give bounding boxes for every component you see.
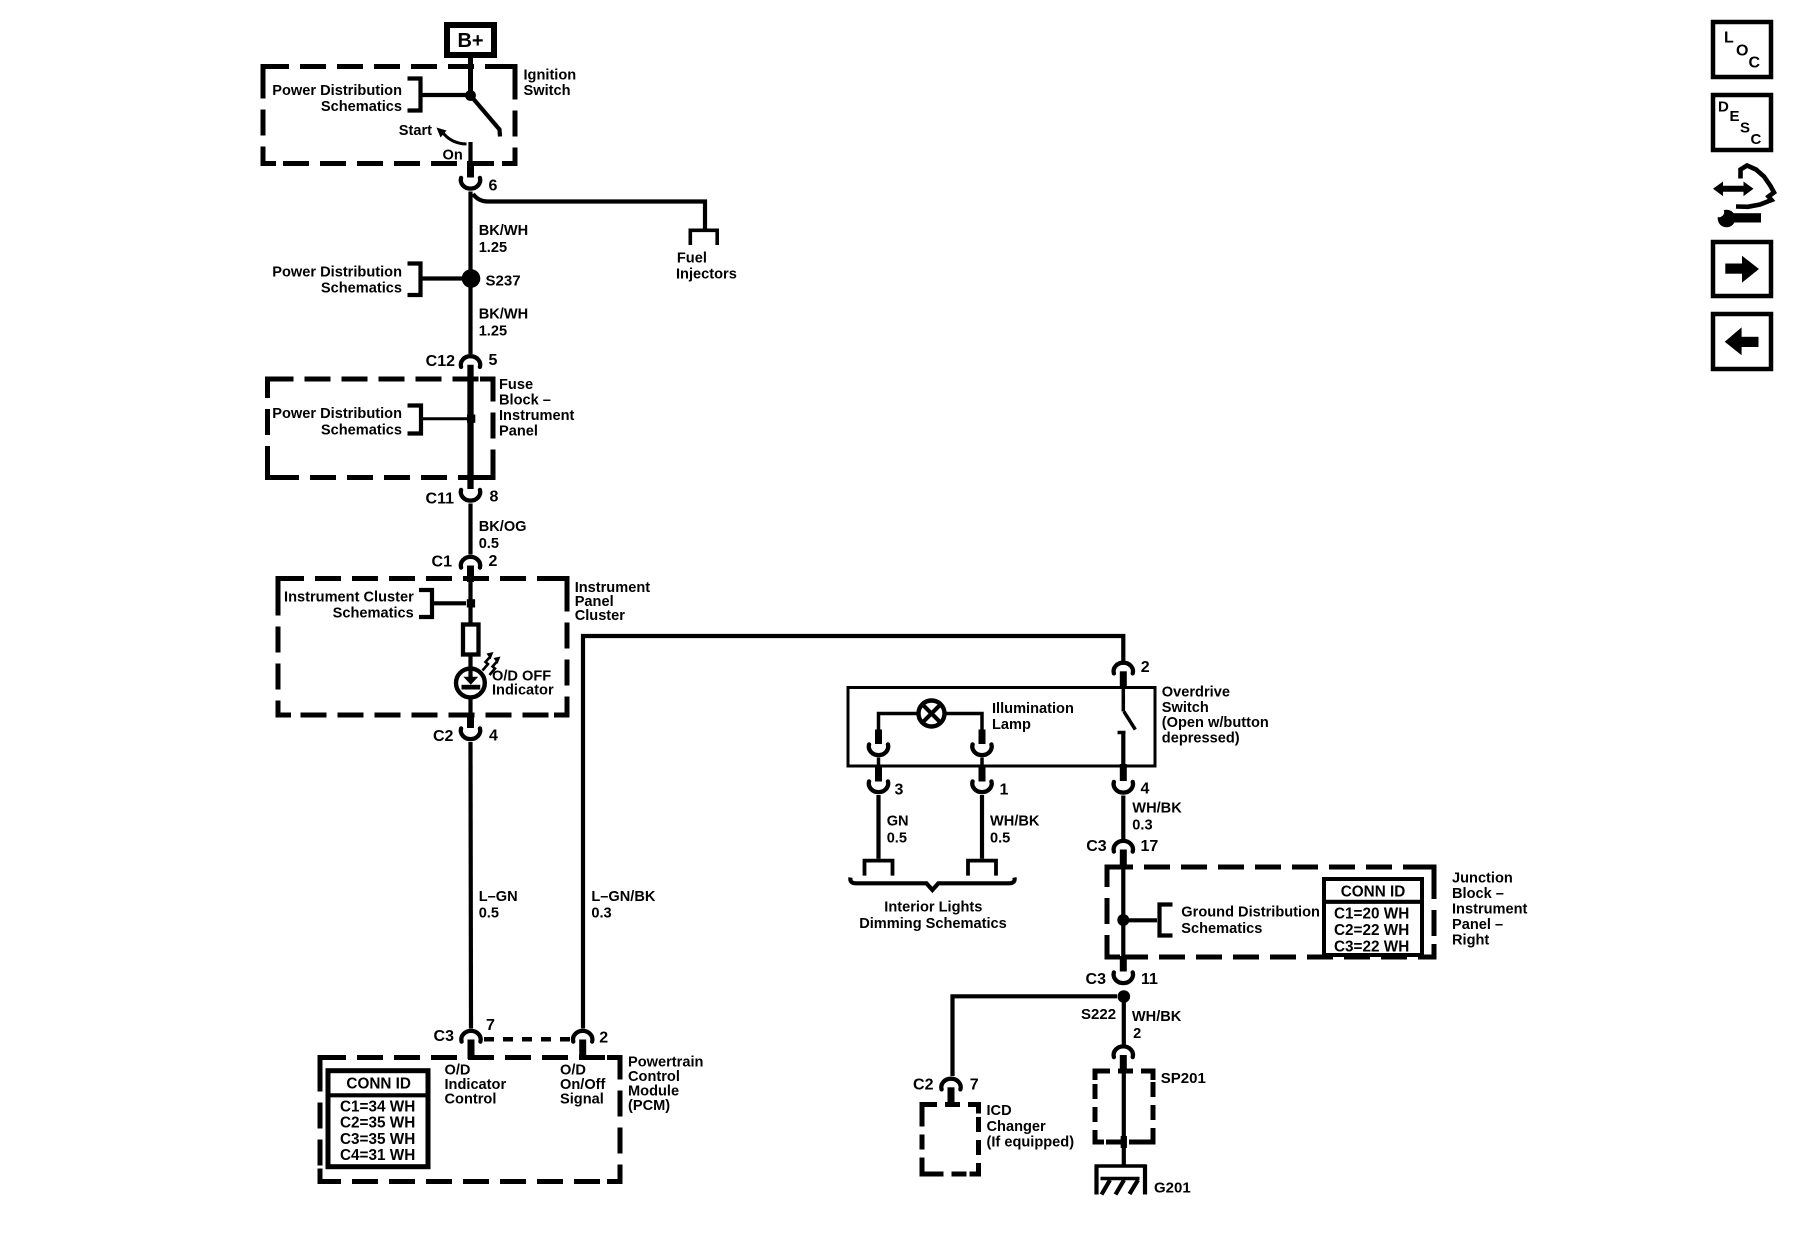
O/D OFF indicator LED <box>456 669 485 698</box>
start-to-on arrow <box>437 128 467 145</box>
svg-text:Ground Distribution: Ground Distribution <box>1181 905 1320 921</box>
lamp right leg <box>945 714 982 745</box>
svg-text:Fuse: Fuse <box>499 377 533 393</box>
svg-text:Instrument: Instrument <box>1452 902 1528 918</box>
svg-text:L: L <box>1724 30 1734 47</box>
svg-text:Dimming Schematics: Dimming Schematics <box>859 916 1007 932</box>
ignition switch pivot <box>465 90 476 101</box>
battery feed B+ <box>447 25 494 55</box>
male pin into switch <box>1120 671 1127 688</box>
lamp right male pin <box>979 766 986 782</box>
connector C12 pin 5 <box>426 352 498 370</box>
svg-text:Interior Lights: Interior Lights <box>884 900 982 916</box>
wire pin3 down <box>876 795 880 859</box>
ignition switch box <box>263 67 515 164</box>
svg-text:0.5: 0.5 <box>479 536 499 552</box>
svg-text:Panel –: Panel – <box>1452 917 1503 933</box>
svg-text:(PCM): (PCM) <box>628 1098 670 1114</box>
svg-text:WH/BK: WH/BK <box>1132 1009 1182 1025</box>
connector C2 pin 4 <box>433 728 498 746</box>
male pin out of switch <box>1120 764 1127 781</box>
SP201 internal wire <box>1122 1073 1126 1136</box>
svg-text:2: 2 <box>1141 659 1150 676</box>
svg-text:Ignition: Ignition <box>524 68 577 84</box>
svg-text:SP201: SP201 <box>1161 1070 1206 1087</box>
svg-text:C3=22 WH: C3=22 WH <box>1334 938 1409 955</box>
svg-text:C1: C1 <box>432 554 453 571</box>
svg-text:C: C <box>1749 55 1761 72</box>
O/D indicator control label <box>445 1062 507 1107</box>
O/D on/off signal wire <box>583 636 1123 1029</box>
lamp left leg <box>879 714 919 745</box>
svg-text:C3: C3 <box>1086 838 1107 855</box>
svg-text:Schematics: Schematics <box>321 422 402 438</box>
svg-text:0.5: 0.5 <box>479 905 499 921</box>
wire C11 to C1 <box>468 504 472 555</box>
power distribution schematics label 2 <box>272 264 466 297</box>
PCM CONN ID table <box>328 1071 428 1167</box>
svg-text:ICD: ICD <box>987 1103 1012 1119</box>
svg-text:L–GN/BK: L–GN/BK <box>591 889 656 905</box>
resistor <box>463 625 479 655</box>
overdrive switch contacts and blade <box>1118 689 1136 765</box>
wire to fuel injectors branch <box>473 194 705 229</box>
lamp right wire to box edge <box>980 758 984 767</box>
svg-text:S222: S222 <box>1081 1006 1116 1023</box>
svg-text:C4=31 WH: C4=31 WH <box>340 1147 415 1164</box>
connector C3 pin 11 <box>1086 971 1158 988</box>
wire pin1 down <box>980 795 984 859</box>
wire 4 to C3 17 <box>1121 796 1125 840</box>
wire label L-GN 0.5 <box>479 889 518 922</box>
connector PCM C3 pin 7 <box>434 1017 495 1045</box>
svg-text:On: On <box>443 148 463 164</box>
svg-text:CONN ID: CONN ID <box>346 1076 411 1093</box>
lamp left male pin <box>875 766 882 782</box>
svg-text:E: E <box>1730 108 1740 125</box>
wire label GN 0.5 <box>887 814 909 847</box>
svg-text:2: 2 <box>599 1030 608 1047</box>
svg-text:Switch: Switch <box>1162 700 1209 716</box>
svg-text:7: 7 <box>486 1017 495 1034</box>
svg-text:Schematics: Schematics <box>333 605 414 621</box>
wire S222 to SP201 <box>1122 1002 1126 1045</box>
PCM male pins <box>471 1040 583 1060</box>
male pin out of junction block <box>1120 956 1127 972</box>
svg-text:3: 3 <box>895 782 904 799</box>
svg-text:(If equipped): (If equipped) <box>987 1134 1075 1150</box>
interior lights terminator left <box>865 861 893 876</box>
svg-text:2: 2 <box>489 553 498 570</box>
svg-text:0.3: 0.3 <box>1132 818 1152 834</box>
svg-text:C2=35 WH: C2=35 WH <box>340 1115 415 1132</box>
SP201 dashed box <box>1095 1071 1153 1142</box>
svg-text:Switch: Switch <box>524 83 571 99</box>
svg-text:G201: G201 <box>1154 1180 1191 1197</box>
ground G201 <box>1095 1165 1147 1195</box>
wire label WH/BK 0.3 <box>1132 801 1182 834</box>
svg-text:17: 17 <box>1141 838 1159 855</box>
illumination lamp <box>919 701 945 727</box>
powertrain control module label <box>628 1055 704 1115</box>
svg-text:1: 1 <box>1000 782 1009 799</box>
svg-text:7: 7 <box>970 1077 979 1094</box>
svg-text:Control: Control <box>445 1091 497 1107</box>
junction block internal wire <box>1121 869 1125 956</box>
svg-text:Right: Right <box>1452 933 1489 949</box>
wire C2 to PCM C3 <box>468 742 473 1029</box>
lamp right socket connector <box>972 744 991 755</box>
svg-text:Start: Start <box>399 123 432 139</box>
svg-text:11: 11 <box>1141 971 1158 988</box>
connector PCM pin 2 <box>573 1030 608 1047</box>
svg-text:Signal: Signal <box>560 1091 604 1107</box>
illumination lamp label <box>992 701 1074 733</box>
svg-text:Illumination: Illumination <box>992 701 1074 717</box>
connector C3 pin 17 <box>1086 838 1158 855</box>
svg-text:Power Distribution: Power Distribution <box>272 83 402 99</box>
svg-text:depressed): depressed) <box>1162 730 1240 746</box>
svg-text:C3: C3 <box>434 1028 455 1045</box>
svg-text:O: O <box>1736 43 1748 60</box>
interior lights brace <box>850 878 1014 891</box>
svg-text:Panel: Panel <box>499 424 538 440</box>
lamp left wire to box edge <box>877 758 881 767</box>
connector C11 pin 8 <box>426 489 499 508</box>
svg-text:Instrument: Instrument <box>499 408 575 424</box>
svg-text:Indicator: Indicator <box>492 683 554 699</box>
svg-text:Lamp: Lamp <box>992 717 1031 733</box>
svg-text:Junction: Junction <box>1452 871 1513 887</box>
power distribution schematics label 1 <box>272 79 466 115</box>
O/D on/off signal label <box>560 1062 606 1107</box>
male pin into SP201 <box>1120 1055 1127 1073</box>
connector 2 (overdrive switch) <box>1114 659 1150 676</box>
wire S222 branch to ICD changer <box>953 996 1118 1076</box>
svg-text:Schematics: Schematics <box>321 281 402 297</box>
svg-text:6: 6 <box>489 178 498 195</box>
wire B+ to ignition switch <box>468 58 473 92</box>
ICD changer label <box>987 1103 1075 1151</box>
svg-text:C1=20 WH: C1=20 WH <box>1334 906 1409 923</box>
fuel injectors symbol <box>690 230 717 245</box>
male pin into ICD changer <box>948 1087 955 1105</box>
junction block label <box>1452 871 1528 949</box>
svg-text:BK/WH: BK/WH <box>479 223 528 239</box>
svg-text:Schematics: Schematics <box>321 99 402 115</box>
ignition switch blade <box>471 96 501 137</box>
power distribution schematics label 3 <box>272 406 467 439</box>
svg-text:5: 5 <box>489 352 498 369</box>
forward arrow nav icon <box>1713 242 1771 296</box>
splice S222 <box>1118 990 1131 1003</box>
svg-text:C2: C2 <box>433 728 454 745</box>
svg-text:C12: C12 <box>426 353 455 370</box>
interior lights terminator right <box>968 861 996 876</box>
schematic reference nav icon <box>1713 166 1774 228</box>
instrument cluster schematics label <box>284 590 466 622</box>
svg-text:Cluster: Cluster <box>575 608 626 624</box>
svg-text:Block –: Block – <box>1452 886 1504 902</box>
DESC nav icon <box>1713 95 1771 150</box>
male pin into cluster <box>467 566 474 583</box>
svg-text:B+: B+ <box>457 30 483 52</box>
svg-text:4: 4 <box>489 728 498 745</box>
SP201 exit stub <box>1121 1136 1127 1148</box>
svg-text:1.25: 1.25 <box>479 324 507 340</box>
svg-text:Injectors: Injectors <box>676 266 737 282</box>
wire label L-GN/BK 0.3 <box>591 889 656 921</box>
wire resistor to LED <box>468 655 472 678</box>
connector C2 pin 7 (ICD) <box>913 1077 979 1094</box>
male pin into junction block <box>1120 850 1127 870</box>
junction block CONN ID table <box>1324 879 1422 955</box>
svg-text:Instrument Cluster: Instrument Cluster <box>284 590 414 606</box>
splice S237 <box>462 269 481 288</box>
wire label BK/WH 1.25 (lower) <box>479 307 528 340</box>
svg-text:8: 8 <box>490 489 499 506</box>
svg-text:D: D <box>1718 99 1729 116</box>
lamp left socket connector <box>869 744 888 755</box>
svg-text:S: S <box>1740 120 1750 137</box>
PCM connector dashed tie <box>484 1037 570 1042</box>
svg-text:WH/BK: WH/BK <box>1132 801 1182 817</box>
svg-text:2: 2 <box>1133 1026 1141 1042</box>
svg-text:0.3: 0.3 <box>591 905 611 921</box>
connector 6 <box>461 178 480 189</box>
svg-text:1.25: 1.25 <box>479 240 507 256</box>
svg-text:BK/OG: BK/OG <box>479 519 527 535</box>
wire S237 to C12 <box>468 287 472 354</box>
svg-text:CONN ID: CONN ID <box>1341 884 1406 901</box>
svg-text:L–GN: L–GN <box>479 889 518 905</box>
fuel injectors label <box>676 251 737 283</box>
svg-text:0.5: 0.5 <box>887 831 907 847</box>
ground distribution schematics label <box>1117 905 1320 938</box>
wire label WH/BK 2 <box>1132 1009 1182 1042</box>
svg-text:C2: C2 <box>913 1077 934 1094</box>
wire label BK/OG 0.5 <box>479 519 527 552</box>
ICD changer dashed box <box>922 1105 979 1175</box>
powertrain control module box <box>320 1058 620 1182</box>
svg-text:C: C <box>1751 131 1762 148</box>
svg-text:BK/WH: BK/WH <box>479 307 528 323</box>
svg-text:Block –: Block – <box>499 393 551 409</box>
interior lights dimming schematics label <box>859 900 1007 933</box>
back arrow nav icon <box>1713 314 1771 369</box>
wire switch to connector 6 <box>468 142 472 178</box>
O/D OFF indicator label <box>492 669 554 699</box>
connector C1 pin 2 <box>432 553 498 571</box>
connector 4 <box>1114 781 1150 798</box>
svg-text:4: 4 <box>1141 781 1150 798</box>
svg-text:C11: C11 <box>426 491 455 508</box>
svg-text:Power Distribution: Power Distribution <box>272 265 402 281</box>
svg-text:S237: S237 <box>486 272 521 289</box>
wire label WH/BK 0.5 <box>990 814 1040 847</box>
svg-text:Schematics: Schematics <box>1181 921 1262 937</box>
wire label BK/WH 1.25 (upper) <box>479 223 528 256</box>
svg-text:C1=34 WH: C1=34 WH <box>340 1098 415 1115</box>
svg-text:Changer: Changer <box>987 1119 1047 1135</box>
ignition switch label <box>524 68 577 100</box>
wire connector 6 to S237 <box>468 192 472 271</box>
fuse block label <box>499 377 575 440</box>
svg-text:C3=35 WH: C3=35 WH <box>340 1131 415 1148</box>
fuse block wire (male pin through block) <box>467 365 473 489</box>
svg-text:C2=22 WH: C2=22 WH <box>1334 922 1409 939</box>
splice pack SP201 connector <box>1114 1046 1133 1057</box>
svg-text:(Open w/button: (Open w/button <box>1162 715 1269 731</box>
LED light arrows <box>483 652 501 675</box>
overdrive switch box <box>848 688 1155 767</box>
instrument panel cluster label <box>575 580 651 624</box>
svg-text:C3: C3 <box>1086 971 1107 988</box>
fuse block dashed box <box>268 379 494 478</box>
svg-text:WH/BK: WH/BK <box>990 814 1040 830</box>
svg-text:0.5: 0.5 <box>990 831 1010 847</box>
wire LED to box edge <box>468 697 472 715</box>
svg-text:Power Distribution: Power Distribution <box>272 406 402 422</box>
cluster junction <box>467 599 475 607</box>
harness connector pin 3 <box>869 781 904 798</box>
svg-text:Overdrive: Overdrive <box>1162 685 1230 701</box>
male pin out of cluster <box>467 713 474 728</box>
svg-text:Fuel: Fuel <box>677 251 707 267</box>
cluster wire upper <box>468 578 472 625</box>
svg-text:GN: GN <box>887 814 909 830</box>
LOC nav icon <box>1713 22 1771 77</box>
fuse block junction <box>467 415 475 423</box>
junction block dashed box <box>1107 867 1434 957</box>
harness connector pin 1 <box>972 781 1008 798</box>
instrument panel cluster box <box>278 579 567 716</box>
overdrive switch label <box>1162 685 1269 747</box>
wire to ground <box>1122 1148 1126 1166</box>
